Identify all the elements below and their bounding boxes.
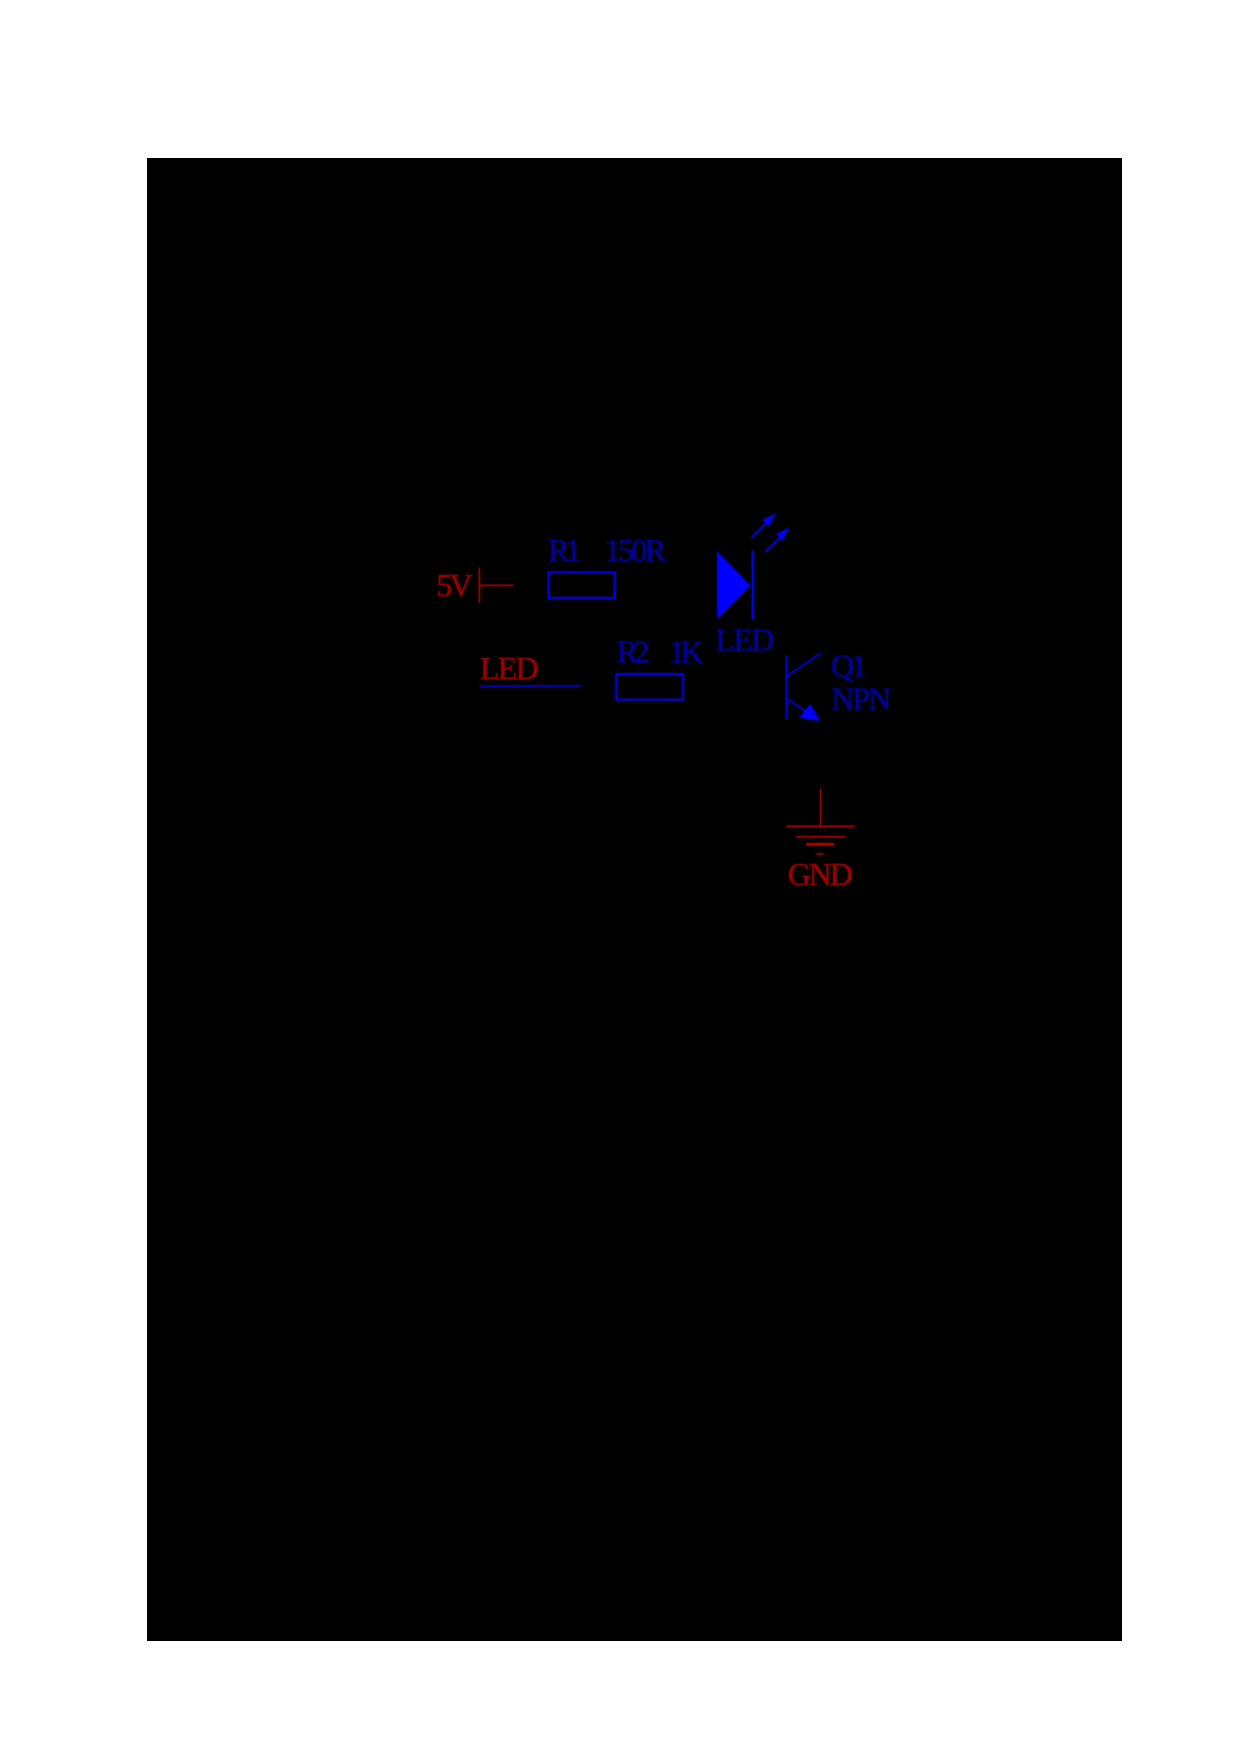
svg-text:NPN: NPN	[831, 681, 891, 717]
LED D1 anode triangle	[717, 551, 750, 619]
power port 5V bar	[478, 568, 480, 603]
LED light arrow 2	[765, 527, 789, 552]
resistor R2 body	[616, 674, 683, 700]
svg-text:LED: LED	[715, 621, 774, 657]
resistor R1 body	[549, 572, 615, 598]
svg-text:1K: 1K	[669, 633, 704, 669]
svg-text:GND: GND	[788, 856, 853, 892]
LED D1 cathode bar	[752, 551, 754, 620]
wire under net label LED	[480, 685, 581, 687]
ground lead wire	[820, 789, 822, 826]
svg-text:5V: 5V	[436, 567, 472, 603]
svg-text:R1: R1	[548, 532, 582, 568]
transistor Q1 base bar	[786, 656, 788, 719]
schematic image black background	[147, 158, 1122, 1641]
ground bar 3	[806, 843, 834, 846]
ground bar 4	[816, 853, 824, 855]
svg-text:Q1: Q1	[831, 648, 867, 684]
power port 5V lead wire	[479, 584, 513, 586]
ground bar 1	[786, 825, 855, 827]
svg-text:150R: 150R	[605, 532, 667, 568]
ground bar 2	[796, 836, 845, 838]
LED light arrow 1	[751, 513, 775, 538]
svg-text:LED: LED	[480, 650, 539, 686]
transistor Q1 collector	[787, 653, 821, 676]
svg-text:R2: R2	[617, 633, 650, 669]
transistor Q1 emitter	[787, 698, 821, 721]
